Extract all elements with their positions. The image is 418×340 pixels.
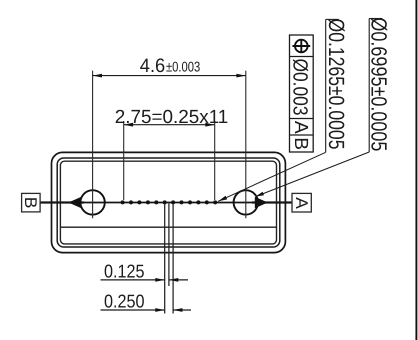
svg-text:2.75=0.25x11: 2.75=0.25x11 xyxy=(115,107,229,128)
fcf position symbol xyxy=(292,39,310,53)
fcf separator 3 xyxy=(290,134,314,136)
leader arrow at guide pin hole xyxy=(255,192,264,197)
svg-text:4.6: 4.6 xyxy=(140,55,165,77)
dim 0.125 extension line b xyxy=(168,204,170,287)
svg-text:0.125: 0.125 xyxy=(104,260,145,281)
feature control frame box xyxy=(290,35,314,152)
dim 0.125 arrow left-pointing xyxy=(169,278,178,282)
svg-text:Ø0.1265±0.0005: Ø0.1265±0.0005 xyxy=(324,19,349,150)
label 0.6995 underline xyxy=(368,19,370,153)
dim 0.250 arrow left-pointing xyxy=(173,308,182,312)
sheet border right edge xyxy=(415,0,417,340)
dim 2.75 extension line left xyxy=(123,121,125,200)
dim 2.75 line xyxy=(124,124,215,126)
dim 0.125 line xyxy=(101,279,165,281)
leader arrow at fiber hole xyxy=(218,196,227,202)
datum B box xyxy=(22,193,40,212)
dim 4.6 line xyxy=(93,75,246,77)
leader to guide pin hole xyxy=(257,152,370,196)
fcf separator 1 xyxy=(290,56,314,58)
leader to fiber hole xyxy=(218,152,326,201)
label 0.1265 top tick xyxy=(326,18,339,20)
dim 2.75 extension line right xyxy=(214,121,216,200)
big arrow right xyxy=(255,197,268,208)
centerline thick right segment xyxy=(252,201,291,203)
label 0.1265 underline xyxy=(325,19,327,152)
centerline B to A xyxy=(40,202,291,204)
dim 0.250 extension line c xyxy=(172,204,174,314)
svg-text:0.250: 0.250 xyxy=(104,290,145,311)
fiber holes row (12 dots) xyxy=(121,200,218,204)
svg-text:±0.003: ±0.003 xyxy=(166,60,200,76)
svg-text:B: B xyxy=(290,137,311,150)
big arrow left xyxy=(68,197,81,208)
guide pin hole left xyxy=(80,190,104,214)
centerline thick left segment xyxy=(40,201,84,203)
dim 4.6 extension line left xyxy=(92,71,94,219)
dim 4.6 extension line right xyxy=(245,71,247,219)
ferrule body inner outline 1 xyxy=(57,158,280,247)
dim 4.6 arrow right xyxy=(236,74,245,78)
ferrule body outer outline xyxy=(52,152,286,252)
ferrule body inner outline 2 xyxy=(60,161,276,244)
fcf separator 2 xyxy=(290,118,314,120)
dim 2.75 arrow left xyxy=(124,123,133,127)
dim 0.250 arrow right-pointing xyxy=(155,308,164,312)
svg-text:A: A xyxy=(292,197,311,209)
svg-text:B: B xyxy=(21,197,40,209)
dim 4.6 arrow left xyxy=(93,74,102,78)
svg-text:Ø0.003: Ø0.003 xyxy=(289,59,312,116)
dim 0.125 right tail xyxy=(169,279,188,281)
dim 0.250 right tail xyxy=(173,309,191,311)
dim 2.75 arrow right xyxy=(205,123,214,127)
label 0.6995 top tick xyxy=(369,18,382,20)
svg-text:A: A xyxy=(290,121,311,134)
datum A box xyxy=(292,193,311,212)
dim 0.125 arrow right-pointing xyxy=(155,278,164,282)
svg-text:Ø0.6995±0.0005: Ø0.6995±0.0005 xyxy=(367,17,392,151)
guide pin hole right xyxy=(234,190,258,214)
dim 0.250 line xyxy=(101,309,165,311)
dim 0.125 extension line a xyxy=(164,204,166,314)
ferrule inner step line xyxy=(61,226,276,228)
